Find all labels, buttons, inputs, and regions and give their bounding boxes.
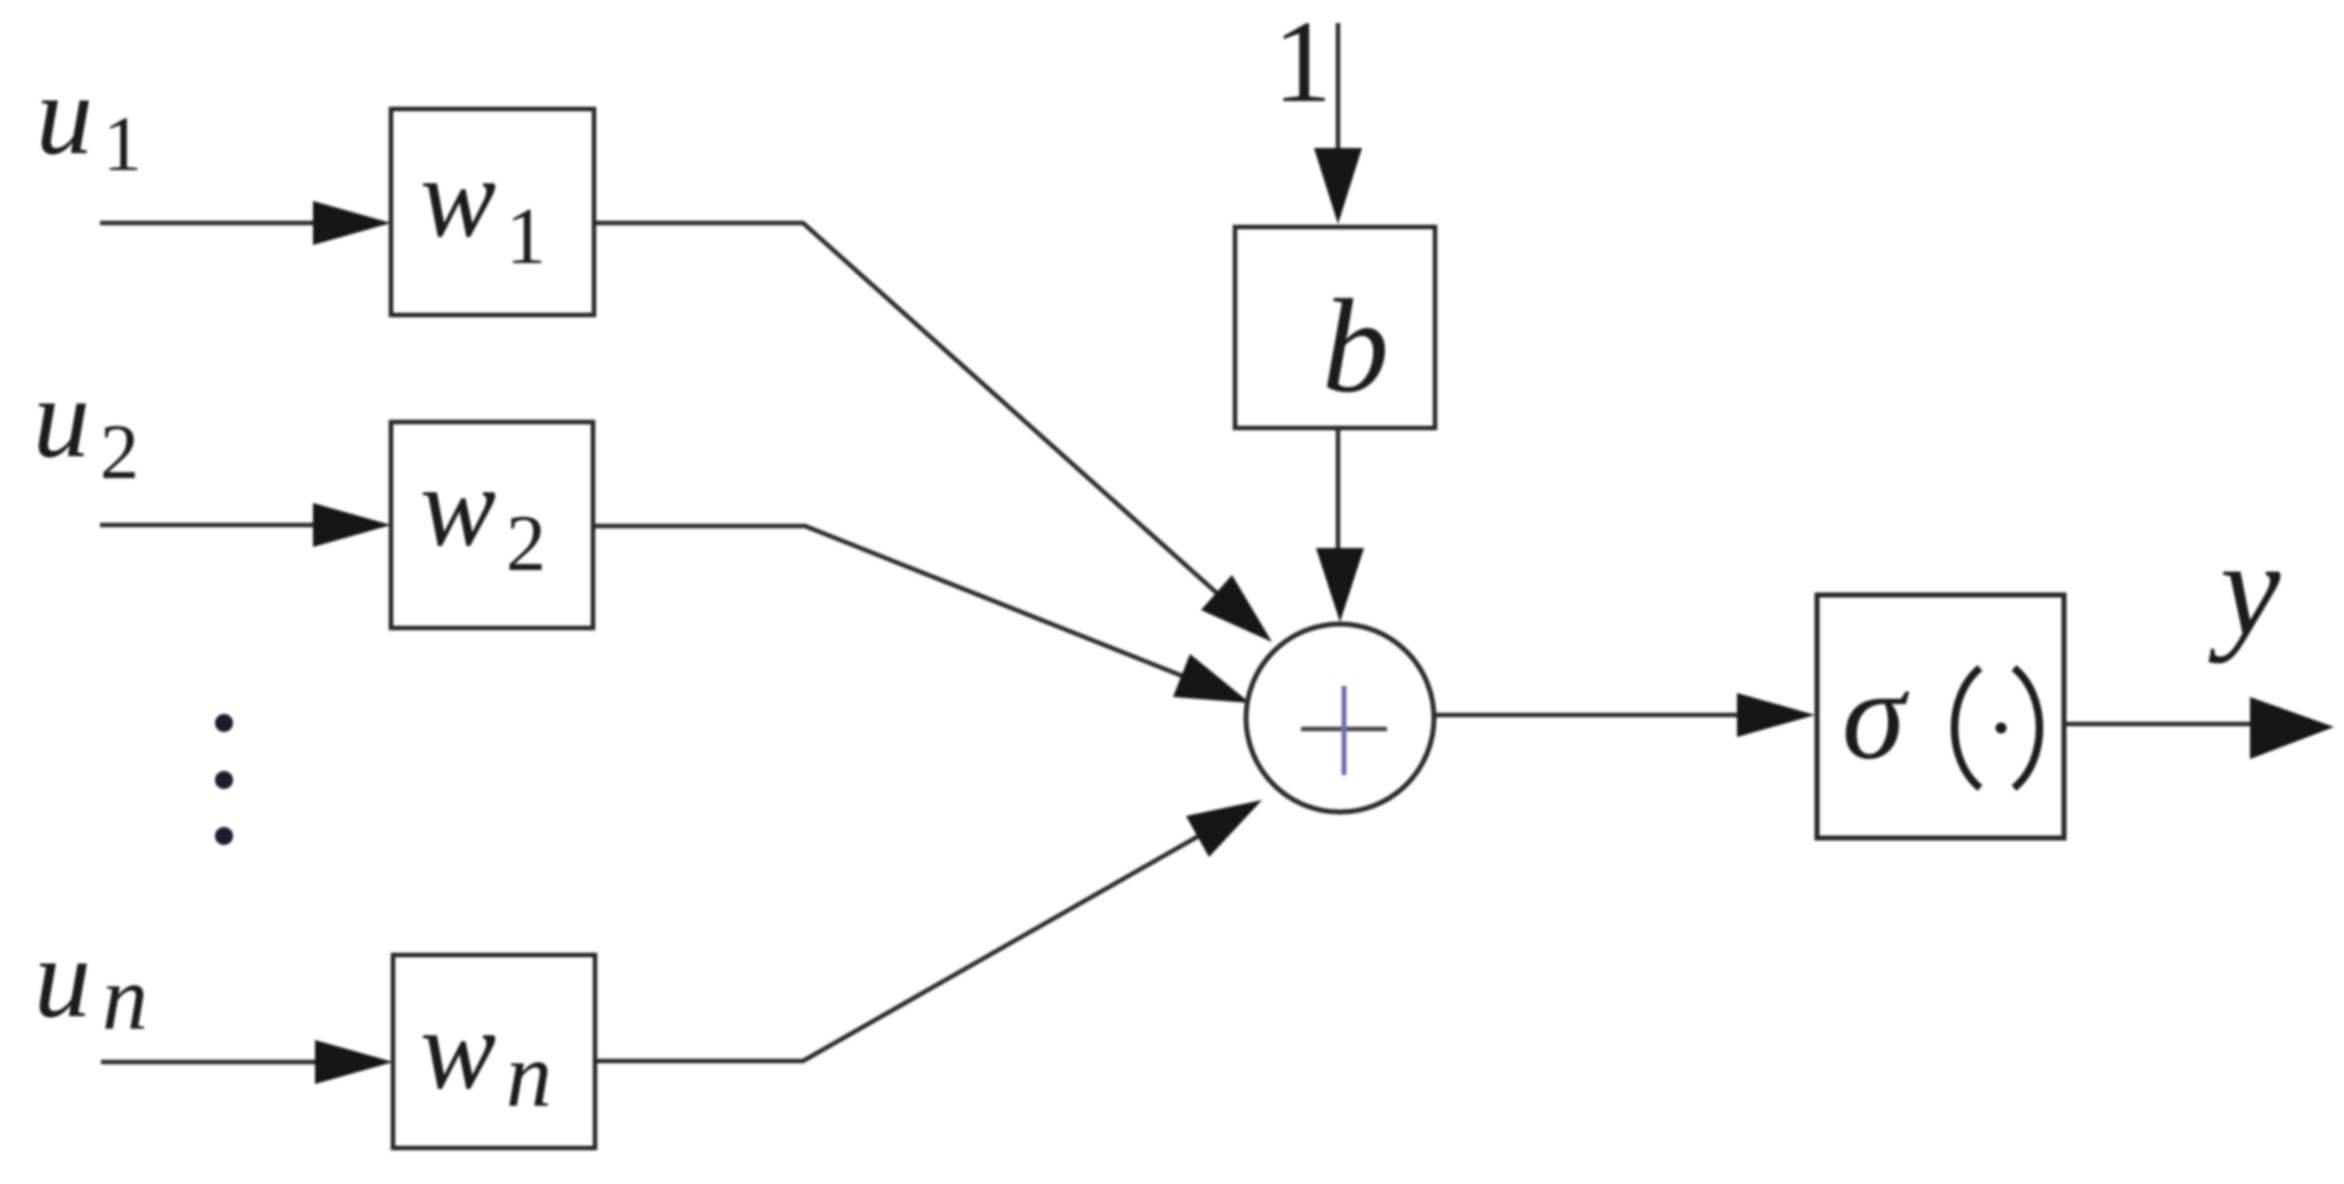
- wire sigma out: [2064, 722, 2260, 727]
- wire input u2: [100, 523, 320, 528]
- svg-text:n: n: [506, 1024, 552, 1126]
- weight block wn: [393, 955, 595, 1148]
- arrowhead into sigma: [1737, 693, 1815, 737]
- svg-text:u: u: [33, 354, 90, 481]
- arrowhead wn to summer: [1186, 800, 1262, 857]
- arrowhead into w1: [313, 201, 391, 245]
- plus sign: [1301, 727, 1387, 732]
- arrowhead into wn: [315, 1040, 393, 1084]
- wire w1 to summer: [594, 223, 1228, 603]
- wire 1 into b: [1336, 23, 1341, 160]
- input label u2: [33, 354, 139, 495]
- svg-text:1: 1: [103, 100, 142, 187]
- svg-text:y: y: [2208, 514, 2281, 664]
- weight block w2: [391, 422, 593, 628]
- label wn: [420, 986, 552, 1126]
- wire wn to summer: [595, 829, 1211, 1061]
- wire w2 to summer: [593, 526, 1195, 681]
- weight block w1: [391, 109, 594, 315]
- arrowhead b to summer: [1316, 548, 1364, 622]
- input label un: [34, 914, 148, 1049]
- svg-text:n: n: [102, 947, 148, 1049]
- svg-text:σ: σ: [1842, 644, 1910, 786]
- input label u1: [36, 51, 142, 187]
- wire b to summer: [1336, 428, 1341, 560]
- svg-text:2: 2: [506, 500, 546, 588]
- svg-text:w: w: [420, 443, 496, 570]
- wire input un: [101, 1060, 322, 1065]
- arrowhead w1 to summer: [1201, 575, 1272, 642]
- svg-text:w: w: [420, 134, 496, 261]
- svg-text:1: 1: [1273, 0, 1332, 127]
- arrowhead into w2: [313, 503, 391, 547]
- svg-text:w: w: [420, 986, 496, 1113]
- label sigma(.): [1842, 644, 2040, 788]
- arrowhead w2 to summer: [1173, 654, 1250, 703]
- svg-text:u: u: [34, 914, 91, 1041]
- arrowhead output y: [2250, 697, 2334, 759]
- label w1: [420, 134, 546, 281]
- vertical ellipsis dots: [215, 714, 233, 845]
- arrowhead into b: [1314, 148, 1362, 224]
- summing junction circle: [1246, 624, 1434, 812]
- svg-text:2: 2: [100, 408, 139, 495]
- wire input u1: [100, 221, 320, 226]
- wire summer to sigma: [1434, 713, 1745, 718]
- svg-text:u: u: [36, 51, 93, 178]
- svg-text:b: b: [1322, 272, 1389, 420]
- label w2: [420, 443, 546, 588]
- activation block sigma: [1817, 595, 2064, 838]
- svg-text:1: 1: [506, 193, 546, 281]
- bias block b: [1235, 227, 1435, 428]
